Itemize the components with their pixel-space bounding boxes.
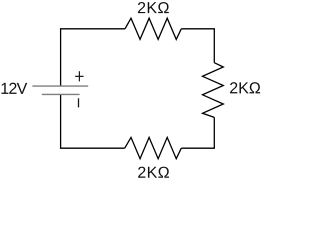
resistor R2 (right, 2K ohm) zigzag (203, 63, 224, 118)
wire: right resistor to bottom-right corner, across to bottom resistor (181, 117, 214, 148)
value label 2KΩ for resistor R3 (bottom) (138, 167, 169, 178)
value label 2KΩ for resistor R2 (right) (230, 82, 260, 93)
resistor R1 (top, 2K ohm) zigzag (125, 18, 181, 39)
source voltage label 12V (1, 83, 27, 94)
resistor R3 (bottom, 2K ohm) zigzag (125, 137, 182, 158)
battery V1 negative plate (short gray bar) (42, 93, 80, 95)
wire: battery positive terminal up to top-left corner, across to top resistor (61, 29, 125, 86)
battery plus terminal mark (75, 71, 83, 81)
wire: bottom resistor to bottom-left corner, up to battery negative terminal (61, 94, 125, 148)
wire: top resistor to top-right corner, down to right resistor (181, 29, 214, 63)
value label 2KΩ for resistor R1 (top) (138, 2, 169, 13)
battery V1 positive plate (long gray bar) (32, 85, 88, 87)
battery minus terminal mark (vertical bar) (78, 98, 80, 107)
